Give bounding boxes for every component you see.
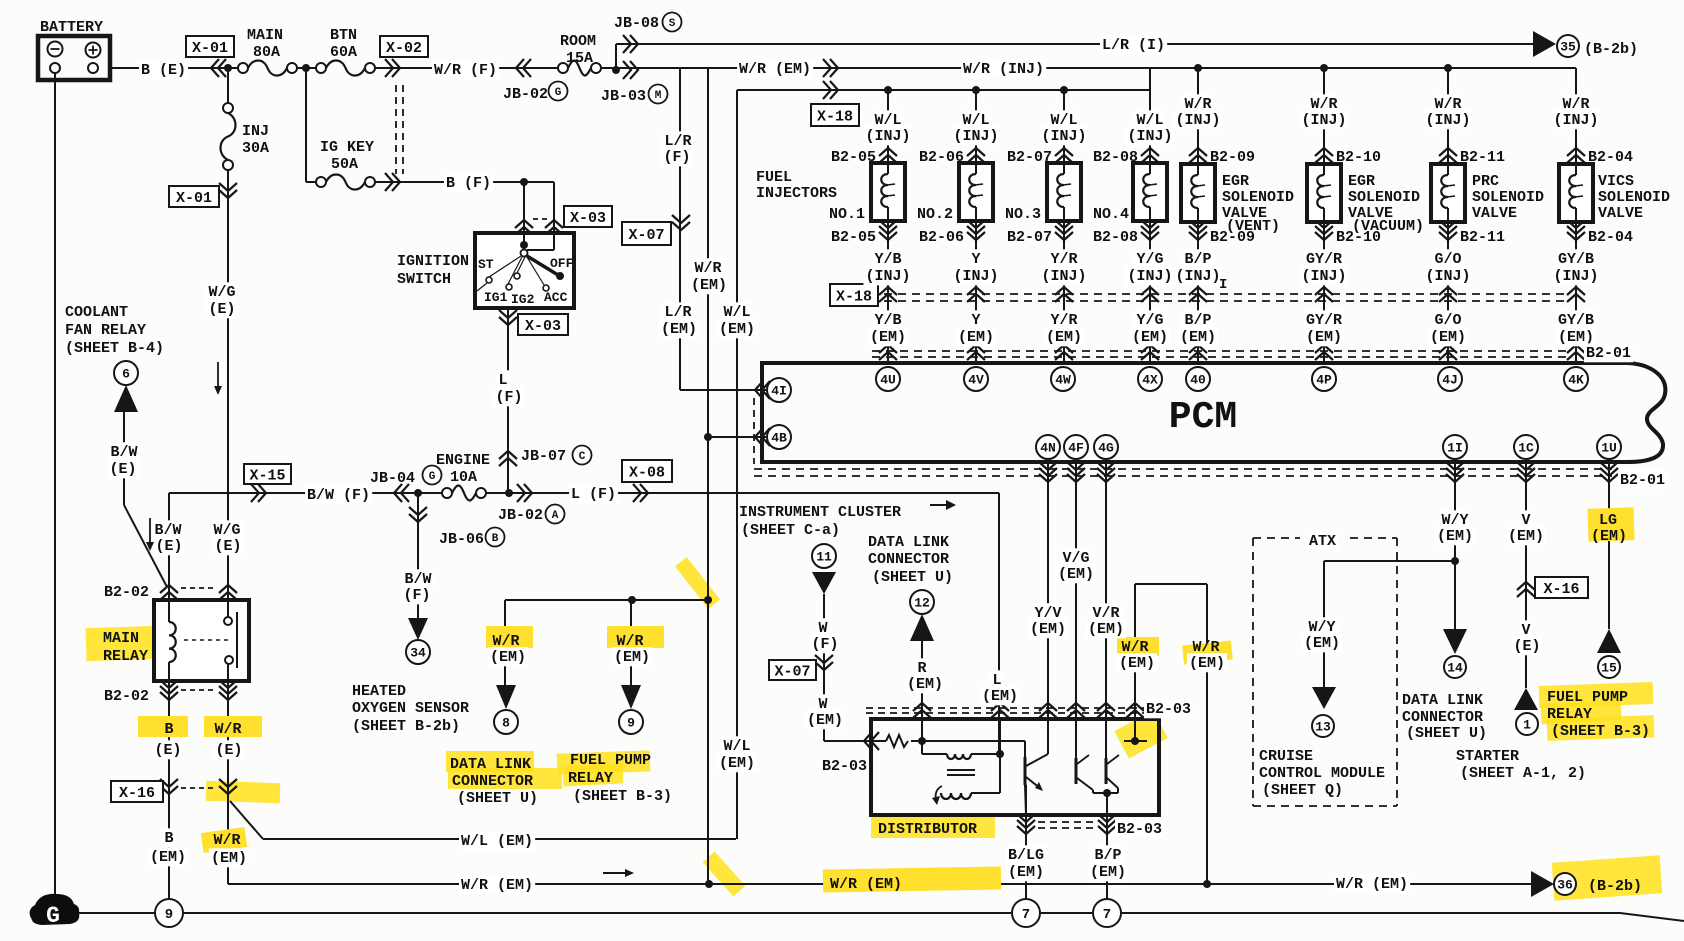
svg-text:Y/B: Y/B [874, 312, 901, 329]
svg-text:JB-04: JB-04 [370, 470, 415, 487]
svg-text:34: 34 [410, 646, 426, 661]
svg-text:(F): (F) [495, 389, 522, 406]
svg-text:(F): (F) [663, 149, 690, 166]
svg-text:ROOM: ROOM [560, 33, 596, 50]
svg-text:(EM): (EM) [211, 850, 247, 867]
svg-text:(EM): (EM) [1508, 528, 1544, 545]
svg-text:(INJ): (INJ) [1041, 268, 1086, 285]
svg-text:X-01: X-01 [176, 190, 212, 207]
svg-text:Y/R: Y/R [1050, 312, 1077, 329]
svg-text:(EM): (EM) [691, 277, 727, 294]
svg-text:C: C [579, 451, 586, 463]
svg-text:(EM): (EM) [1008, 864, 1044, 881]
svg-text:X-03: X-03 [525, 318, 561, 335]
svg-text:W/R: W/R [213, 832, 240, 849]
svg-text:(EM): (EM) [1304, 635, 1340, 652]
svg-text:STARTER: STARTER [1456, 748, 1519, 765]
svg-text:B2-03: B2-03 [1117, 821, 1162, 838]
svg-text:6: 6 [122, 367, 130, 382]
svg-text:Y: Y [971, 251, 980, 268]
svg-text:X-15: X-15 [249, 467, 285, 484]
svg-text:4F: 4F [1068, 441, 1084, 456]
svg-text:FUEL PUMP: FUEL PUMP [1547, 689, 1628, 706]
svg-text:30A: 30A [242, 140, 269, 157]
svg-text:8: 8 [502, 716, 510, 731]
svg-text:7: 7 [1103, 907, 1111, 923]
svg-text:EGR: EGR [1222, 173, 1249, 190]
svg-text:10A: 10A [450, 469, 477, 486]
svg-text:A: A [552, 510, 559, 522]
svg-text:(E): (E) [1513, 638, 1540, 655]
svg-text:(E): (E) [215, 742, 242, 759]
svg-text:W/R (EM): W/R (EM) [739, 61, 811, 78]
svg-text:4P: 4P [1316, 373, 1332, 388]
svg-text:LG: LG [1599, 512, 1617, 529]
svg-text:Y/G: Y/G [1136, 251, 1163, 268]
svg-text:(INJ): (INJ) [865, 268, 910, 285]
svg-text:VALVE: VALVE [1598, 205, 1643, 222]
svg-text:INJECTORS: INJECTORS [756, 185, 837, 202]
svg-text:DATA LINK: DATA LINK [868, 534, 949, 551]
svg-text:MAIN: MAIN [103, 630, 139, 647]
svg-text:(B-2b): (B-2b) [1584, 41, 1638, 58]
svg-text:14: 14 [1447, 661, 1463, 676]
svg-text:35: 35 [1560, 40, 1576, 55]
svg-text:RELAY: RELAY [103, 648, 148, 665]
svg-text:B (F): B (F) [446, 175, 491, 192]
svg-text:FAN RELAY: FAN RELAY [65, 322, 146, 339]
svg-text:DISTRIBUTOR: DISTRIBUTOR [878, 821, 977, 838]
svg-text:(EM): (EM) [1030, 621, 1066, 638]
svg-text:B2-08: B2-08 [1093, 229, 1138, 246]
svg-text:W/L (EM): W/L (EM) [461, 833, 533, 850]
svg-text:15A: 15A [566, 50, 593, 67]
svg-text:JB-07: JB-07 [521, 448, 566, 465]
svg-text:JB-02: JB-02 [498, 507, 543, 524]
svg-text:B2-05: B2-05 [831, 149, 876, 166]
svg-text:(SHEET U): (SHEET U) [872, 569, 953, 586]
svg-text:L: L [498, 372, 507, 389]
svg-text:ATX: ATX [1309, 533, 1336, 550]
svg-text:INSTRUMENT CLUSTER: INSTRUMENT CLUSTER [739, 504, 901, 521]
svg-text:(E): (E) [208, 301, 235, 318]
svg-text:(INJ): (INJ) [1041, 128, 1086, 145]
svg-text:X-01: X-01 [192, 40, 228, 57]
svg-text:(EM): (EM) [719, 755, 755, 772]
svg-text:W/L: W/L [723, 738, 750, 755]
svg-text:(F): (F) [811, 636, 838, 653]
svg-text:(EM): (EM) [490, 649, 526, 666]
svg-text:4B: 4B [771, 431, 787, 446]
svg-text:B2-02: B2-02 [104, 688, 149, 705]
svg-text:X-18: X-18 [817, 108, 853, 125]
svg-text:NO.2: NO.2 [917, 206, 953, 223]
svg-text:VALVE: VALVE [1472, 205, 1517, 222]
svg-text:NO.3: NO.3 [1005, 206, 1041, 223]
svg-text:(EM): (EM) [150, 849, 186, 866]
svg-text:(SHEET U): (SHEET U) [457, 790, 538, 807]
svg-text:4K: 4K [1568, 373, 1584, 388]
svg-text:SOLENOID: SOLENOID [1472, 189, 1544, 206]
svg-text:(EM): (EM) [1591, 528, 1627, 545]
svg-text:OFF: OFF [550, 256, 574, 271]
svg-text:(VENT): (VENT) [1226, 218, 1280, 235]
svg-text:4J: 4J [1442, 373, 1458, 388]
svg-text:S: S [669, 18, 676, 30]
svg-text:(EM): (EM) [661, 321, 697, 338]
svg-text:G: G [555, 87, 562, 99]
svg-text:(SHEET B-3): (SHEET B-3) [1551, 723, 1650, 740]
svg-text:(SHEET B-4): (SHEET B-4) [65, 340, 164, 357]
svg-text:B2-08: B2-08 [1093, 149, 1138, 166]
svg-text:IGNITION: IGNITION [397, 253, 469, 270]
svg-text:W/R (INJ): W/R (INJ) [963, 61, 1044, 78]
svg-text:9: 9 [627, 716, 635, 731]
svg-text:X-07: X-07 [774, 663, 810, 680]
svg-text:W/R: W/R [694, 260, 721, 277]
svg-text:SOLENOID: SOLENOID [1348, 189, 1420, 206]
svg-text:B (E): B (E) [141, 62, 186, 79]
svg-text:1U: 1U [1601, 441, 1617, 456]
svg-text:80A: 80A [253, 44, 280, 61]
svg-text:(EM): (EM) [1189, 655, 1225, 672]
svg-text:4V: 4V [968, 373, 984, 388]
svg-text:36: 36 [1557, 878, 1573, 893]
svg-text:(EM): (EM) [1119, 655, 1155, 672]
svg-text:11: 11 [816, 550, 832, 565]
svg-text:W/R (EM): W/R (EM) [1336, 876, 1408, 893]
svg-text:INJ: INJ [242, 123, 269, 140]
svg-text:9: 9 [165, 907, 173, 923]
svg-text:(INJ): (INJ) [1127, 268, 1172, 285]
svg-text:ACC: ACC [544, 290, 568, 305]
svg-text:OXYGEN SENSOR: OXYGEN SENSOR [352, 700, 469, 717]
svg-text:(INJ): (INJ) [1127, 128, 1172, 145]
svg-text:G/O: G/O [1434, 312, 1461, 329]
svg-text:X-02: X-02 [386, 40, 422, 57]
svg-text:IG1: IG1 [484, 290, 508, 305]
svg-text:W/R: W/R [214, 721, 241, 738]
svg-text:IG2: IG2 [511, 292, 535, 307]
svg-text:W/G: W/G [208, 284, 235, 301]
svg-text:4N: 4N [1040, 441, 1056, 456]
svg-text:W/R (EM): W/R (EM) [830, 876, 902, 893]
svg-text:(INJ): (INJ) [953, 268, 998, 285]
svg-text:CONNECTOR: CONNECTOR [452, 773, 533, 790]
svg-text:MAIN: MAIN [247, 27, 283, 44]
svg-text:B2-02: B2-02 [104, 584, 149, 601]
svg-text:G: G [46, 903, 60, 929]
svg-text:B/P: B/P [1094, 847, 1121, 864]
svg-text:BATTERY: BATTERY [40, 19, 103, 36]
svg-text:(EM): (EM) [1180, 329, 1216, 346]
svg-text:(INJ): (INJ) [1175, 112, 1220, 129]
svg-text:COOLANT: COOLANT [65, 304, 128, 321]
svg-text:FUEL: FUEL [756, 169, 792, 186]
svg-text:50A: 50A [331, 156, 358, 173]
svg-text:7: 7 [1022, 907, 1030, 923]
svg-text:(EM): (EM) [1437, 528, 1473, 545]
svg-text:SOLENOID: SOLENOID [1598, 189, 1670, 206]
svg-text:X-16: X-16 [1543, 581, 1579, 598]
svg-text:JB-03: JB-03 [601, 88, 646, 105]
svg-text:(SHEET C-a): (SHEET C-a) [741, 522, 840, 539]
svg-text:SOLENOID: SOLENOID [1222, 189, 1294, 206]
svg-text:B/W: B/W [110, 444, 137, 461]
svg-text:L/R (I): L/R (I) [1102, 37, 1165, 54]
svg-text:(SHEET A-1, 2): (SHEET A-1, 2) [1460, 765, 1586, 782]
svg-text:B2-11: B2-11 [1460, 229, 1505, 246]
svg-text:RELAY: RELAY [568, 770, 613, 787]
svg-text:Y/R: Y/R [1050, 251, 1077, 268]
svg-text:CONTROL MODULE: CONTROL MODULE [1259, 765, 1385, 782]
svg-text:40: 40 [1190, 373, 1206, 388]
svg-text:PCM: PCM [1169, 396, 1237, 439]
svg-text:1: 1 [1523, 718, 1531, 733]
svg-text:(SHEET B-2b): (SHEET B-2b) [352, 718, 460, 735]
svg-text:B/W (F): B/W (F) [307, 487, 370, 504]
svg-text:(EM): (EM) [1046, 329, 1082, 346]
svg-text:X-03: X-03 [570, 210, 606, 227]
svg-text:B: B [492, 533, 499, 545]
svg-text:(EM): (EM) [1430, 329, 1466, 346]
svg-text:W/R (EM): W/R (EM) [461, 877, 533, 894]
svg-text:FUEL PUMP: FUEL PUMP [570, 752, 651, 769]
svg-text:4I: 4I [771, 384, 787, 399]
svg-text:W/L: W/L [723, 304, 750, 321]
svg-text:(EM): (EM) [1088, 621, 1124, 638]
svg-text:X-08: X-08 [629, 464, 665, 481]
svg-text:B2-09: B2-09 [1210, 149, 1255, 166]
svg-text:Y/B: Y/B [874, 251, 901, 268]
svg-text:B2-06: B2-06 [919, 229, 964, 246]
svg-text:(EM): (EM) [719, 321, 755, 338]
svg-text:B2-10: B2-10 [1336, 149, 1381, 166]
svg-text:B2-01: B2-01 [1586, 345, 1631, 362]
svg-text:4W: 4W [1055, 373, 1071, 388]
svg-text:B2-04: B2-04 [1588, 229, 1633, 246]
svg-text:B2-05: B2-05 [831, 229, 876, 246]
svg-text:(INJ): (INJ) [1175, 268, 1220, 285]
svg-text:B2-07: B2-07 [1007, 229, 1052, 246]
svg-text:(E): (E) [154, 742, 181, 759]
svg-text:W/R (F): W/R (F) [434, 62, 497, 79]
svg-text:GY/B: GY/B [1558, 251, 1594, 268]
svg-text:4G: 4G [1098, 441, 1114, 456]
svg-text:(INJ): (INJ) [1425, 112, 1470, 129]
svg-text:B2-06: B2-06 [919, 149, 964, 166]
svg-text:(SHEET B-3): (SHEET B-3) [573, 788, 672, 805]
svg-text:B: B [164, 830, 173, 847]
svg-text:(INJ): (INJ) [1553, 112, 1598, 129]
svg-text:15: 15 [1601, 661, 1617, 676]
svg-text:I: I [1219, 277, 1227, 293]
svg-text:(SHEET U): (SHEET U) [1406, 725, 1487, 742]
svg-text:B2-07: B2-07 [1007, 149, 1052, 166]
svg-text:L (F): L (F) [571, 486, 616, 503]
svg-text:G/O: G/O [1434, 251, 1461, 268]
svg-text:NO.1: NO.1 [829, 206, 865, 223]
svg-text:ST: ST [478, 257, 494, 272]
svg-text:NO.4: NO.4 [1093, 206, 1129, 223]
svg-text:GY/R: GY/R [1306, 312, 1342, 329]
svg-text:(VACUUM): (VACUUM) [1352, 218, 1424, 235]
svg-text:(E): (E) [109, 461, 136, 478]
svg-text:(EM): (EM) [1306, 329, 1342, 346]
svg-text:HEATED: HEATED [352, 683, 406, 700]
svg-text:Y/G: Y/G [1136, 312, 1163, 329]
svg-text:(EM): (EM) [614, 649, 650, 666]
svg-text:JB-08: JB-08 [614, 15, 659, 32]
svg-text:B/LG: B/LG [1008, 847, 1044, 864]
svg-text:ENGINE: ENGINE [436, 452, 490, 469]
svg-text:DATA LINK: DATA LINK [450, 756, 531, 773]
svg-text:4X: 4X [1142, 373, 1158, 388]
svg-text:1C: 1C [1518, 441, 1534, 456]
svg-text:VICS: VICS [1598, 173, 1634, 190]
svg-text:(EM): (EM) [1090, 864, 1126, 881]
svg-text:B: B [164, 721, 173, 738]
svg-text:CRUISE: CRUISE [1259, 748, 1313, 765]
svg-text:(INJ): (INJ) [1301, 268, 1346, 285]
svg-text:(EM): (EM) [958, 329, 994, 346]
svg-text:JB-02: JB-02 [503, 86, 548, 103]
svg-text:G: G [429, 471, 436, 483]
svg-text:(INJ): (INJ) [1553, 268, 1598, 285]
svg-text:(EM): (EM) [907, 676, 943, 693]
svg-text:CONNECTOR: CONNECTOR [868, 551, 949, 568]
svg-text:DATA LINK: DATA LINK [1402, 692, 1483, 709]
svg-text:(INJ): (INJ) [865, 128, 910, 145]
svg-text:B2-03: B2-03 [822, 758, 867, 775]
svg-text:4U: 4U [880, 373, 896, 388]
svg-text:(EM): (EM) [1058, 566, 1094, 583]
svg-text:12: 12 [914, 596, 930, 611]
svg-text:Y: Y [971, 312, 980, 329]
svg-text:(EM): (EM) [870, 329, 906, 346]
svg-text:13: 13 [1315, 720, 1331, 735]
svg-text:(EM): (EM) [1132, 329, 1168, 346]
svg-text:(INJ): (INJ) [953, 128, 998, 145]
svg-text:X-16: X-16 [119, 785, 155, 802]
svg-text:(B-2b): (B-2b) [1588, 878, 1642, 895]
svg-text:L/R: L/R [664, 304, 691, 321]
svg-text:B/P: B/P [1184, 251, 1211, 268]
svg-text:IG KEY: IG KEY [320, 139, 374, 156]
svg-text:60A: 60A [330, 44, 357, 61]
svg-text:GY/B: GY/B [1558, 312, 1594, 329]
svg-text:BTN: BTN [330, 27, 357, 44]
svg-text:(E): (E) [214, 538, 241, 555]
svg-text:SWITCH: SWITCH [397, 271, 451, 288]
svg-text:B2-01: B2-01 [1620, 472, 1665, 489]
svg-text:(INJ): (INJ) [1425, 268, 1470, 285]
svg-text:(E): (E) [155, 538, 182, 555]
svg-text:(SHEET Q): (SHEET Q) [1262, 782, 1343, 799]
svg-text:B/P: B/P [1184, 312, 1211, 329]
svg-text:(INJ): (INJ) [1301, 112, 1346, 129]
svg-text:B2-03: B2-03 [1146, 701, 1191, 718]
svg-text:1I: 1I [1447, 441, 1463, 456]
svg-text:(EM): (EM) [982, 688, 1018, 705]
svg-text:(EM): (EM) [807, 712, 843, 729]
svg-text:CONNECTOR: CONNECTOR [1402, 709, 1483, 726]
svg-text:M: M [655, 90, 662, 102]
svg-text:B2-04: B2-04 [1588, 149, 1633, 166]
svg-text:JB-06: JB-06 [439, 531, 484, 548]
svg-text:X-18: X-18 [836, 288, 872, 305]
svg-text:B2-11: B2-11 [1460, 149, 1505, 166]
svg-text:PRC: PRC [1472, 173, 1499, 190]
svg-text:(F): (F) [403, 587, 430, 604]
svg-text:X-07: X-07 [628, 227, 664, 244]
svg-text:GY/R: GY/R [1306, 251, 1342, 268]
svg-text:RELAY: RELAY [1547, 706, 1592, 723]
svg-text:EGR: EGR [1348, 173, 1375, 190]
